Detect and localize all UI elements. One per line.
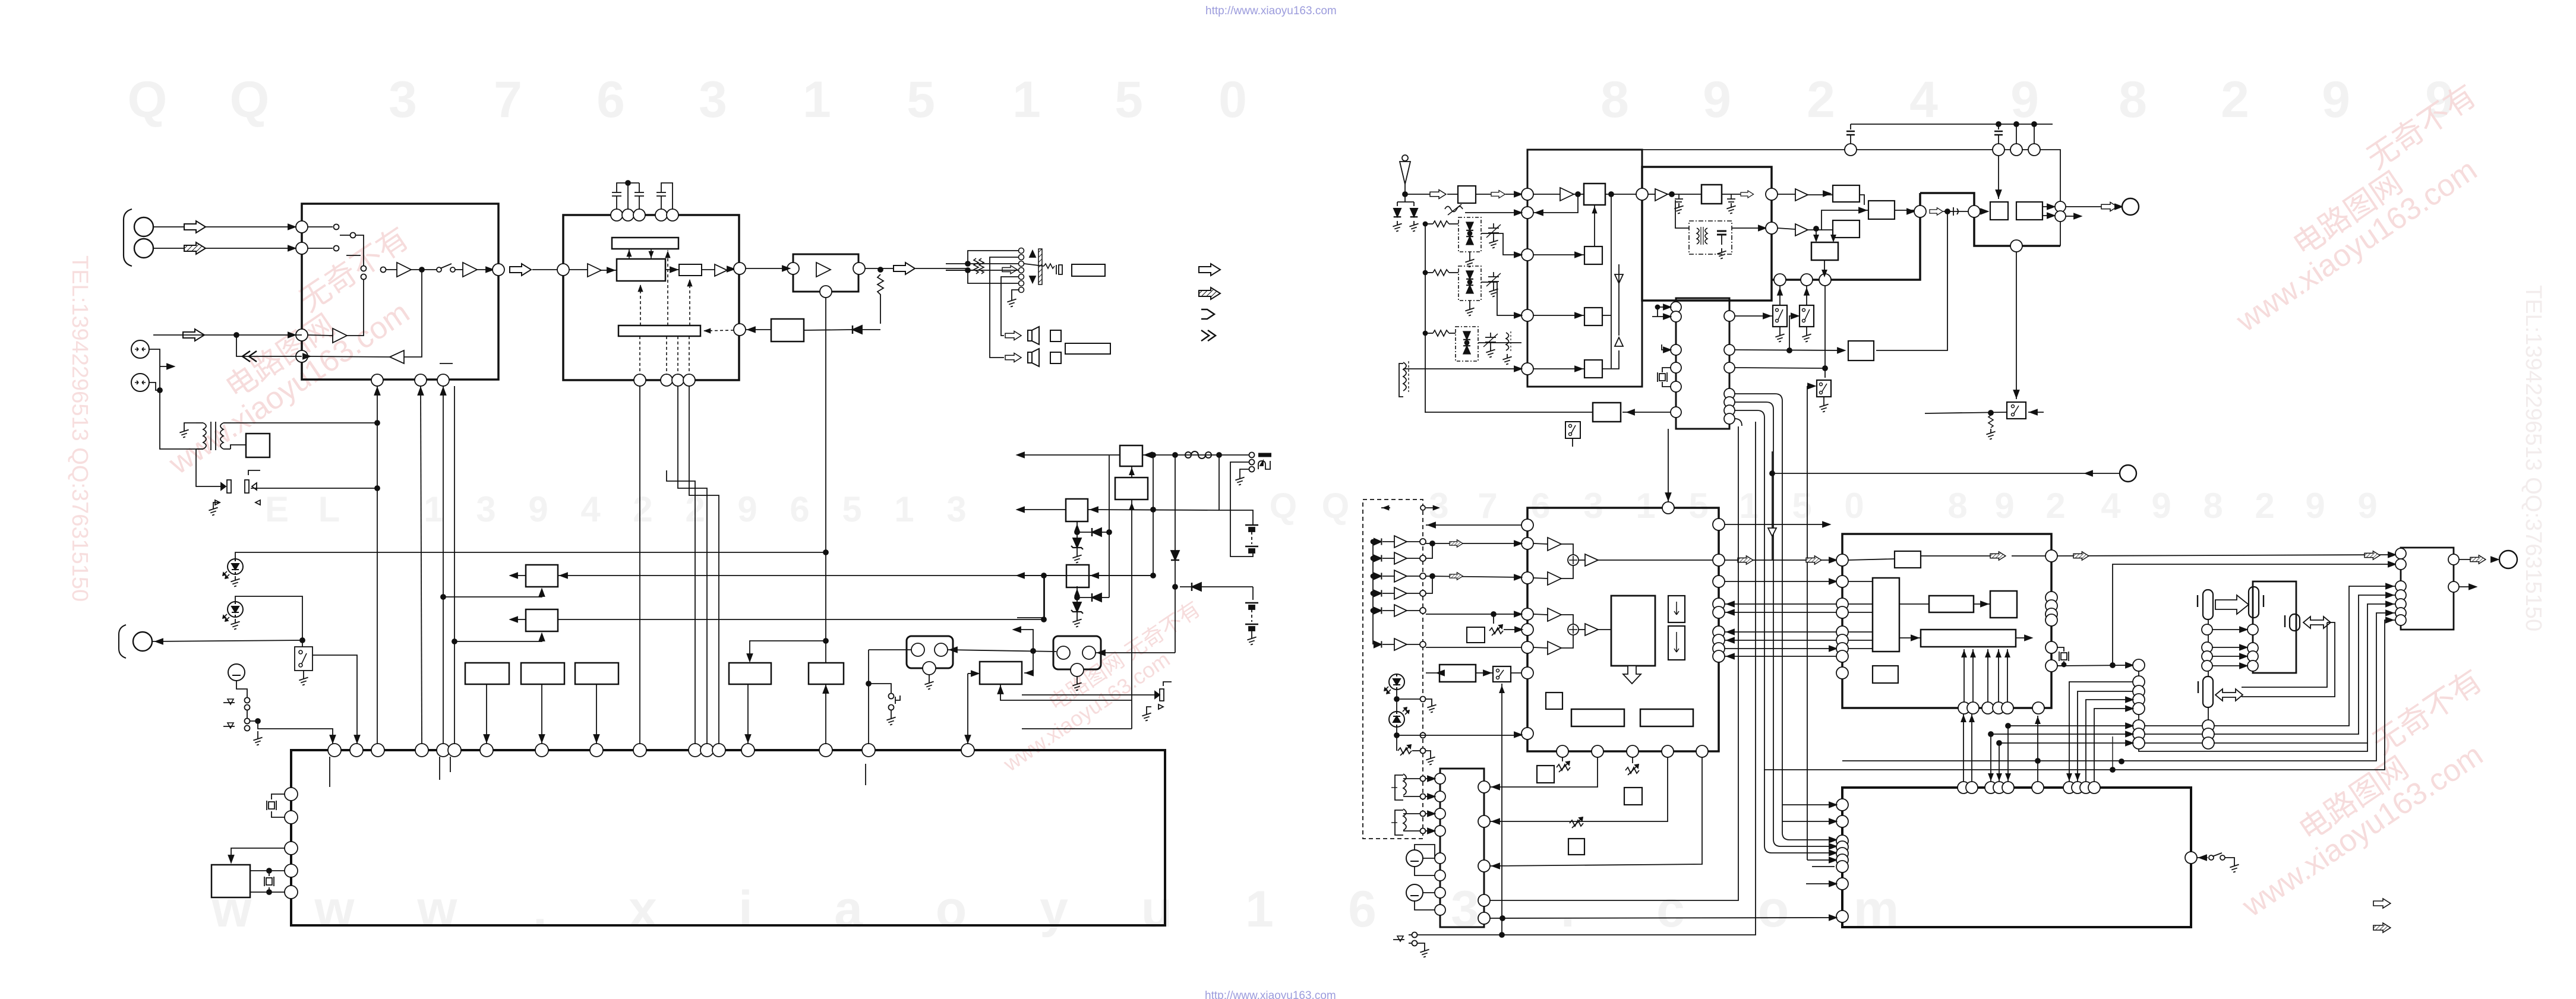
key rows: diodes and amps (1374, 536, 1426, 650)
wire to opto (1022, 694, 1155, 695)
svg-text:0: 0 (1844, 486, 1864, 526)
svg-text:5: 5 (1688, 486, 1708, 526)
box digital receiver (246, 434, 270, 457)
svg-text:4: 4 (580, 489, 601, 529)
speaker L pad (1050, 330, 1061, 342)
svg-text:Q: Q (128, 71, 168, 128)
diode pair below PW3 (1077, 586, 1078, 592)
switch inside (299, 650, 307, 667)
push button glyph (895, 695, 900, 704)
trimmer cap1 (1488, 223, 1499, 238)
wire M1 right (948, 650, 1056, 652)
speaker R (1028, 349, 1039, 366)
wire into rect3 right (1024, 653, 1033, 673)
motor M1 (907, 636, 953, 668)
svg-text:y: y (1040, 881, 1068, 938)
terminal circle out (2122, 198, 2139, 215)
wire (455, 269, 463, 270)
speaker network frame (968, 251, 1018, 264)
svg-text:6: 6 (1530, 486, 1550, 526)
headphone jack bracket (119, 625, 126, 658)
arrowhead (2115, 204, 2122, 210)
block arrow mid (1930, 208, 1943, 215)
head1 wires (1403, 778, 1420, 779)
wire to U201 (532, 269, 557, 270)
stereo pilot vertical (2016, 252, 2017, 399)
wire to tuner (1505, 194, 1521, 195)
switch wire (340, 235, 351, 236)
ground (891, 710, 892, 715)
svg-text:9: 9 (2305, 486, 2325, 526)
pin circle U201 left (557, 264, 569, 276)
wire switch left resistor (1925, 412, 2007, 413)
variable inductor (1445, 207, 1463, 212)
arrow up into R5 (823, 686, 829, 693)
zener below (1071, 602, 1083, 614)
main IC top line (1642, 150, 2060, 246)
wire contacts (247, 710, 248, 718)
battery bar (1258, 453, 1271, 457)
pin if left (1636, 188, 1648, 200)
crystal snd (2059, 652, 2069, 661)
rec out arrow (183, 329, 204, 341)
if tri (1655, 189, 1668, 201)
tri row2 (1795, 224, 1808, 236)
agc box (1848, 341, 1874, 361)
tri (715, 264, 727, 276)
R1 box (526, 565, 558, 587)
battery B2 cell2 (1245, 624, 1258, 631)
svg-text:TEL:13942296513 QQ:376315150: TEL:13942296513 QQ:376315150 (67, 255, 92, 602)
pins syscon left (1671, 302, 1681, 418)
ground opto (1147, 707, 1151, 710)
diode mute (853, 325, 862, 334)
vertical bus 708 (421, 386, 422, 744)
wire (386, 269, 397, 270)
mic MC101 (228, 664, 245, 681)
wire M2 right (1096, 652, 1175, 653)
wire led pair to bus (251, 488, 377, 489)
key row merge links (1430, 541, 1435, 546)
stubs inside U901 (329, 757, 330, 787)
wire stub pin1 (308, 226, 333, 227)
key row5 trimmer (1467, 627, 1485, 643)
servo box rect3 (980, 662, 1022, 684)
R array box2 (521, 663, 564, 684)
diode to battery2 (1192, 583, 1201, 591)
hatched arrow inside snd (1990, 552, 2006, 560)
vertical from 3364 pin (1998, 156, 1999, 199)
pin on outline (2010, 240, 2022, 252)
vertical pin 1629 (967, 674, 968, 744)
junction (300, 638, 305, 643)
LED D102 power (223, 559, 243, 578)
small rect (679, 264, 702, 276)
junction on bus (375, 421, 380, 425)
pin if right2 (1766, 222, 1778, 234)
svg-text:2: 2 (2221, 71, 2249, 128)
diode pair above PW3 (1077, 565, 1078, 590)
pins tape left (1435, 773, 1445, 915)
R1 left arrow out (512, 575, 526, 576)
syscon top pin to thick bus (1702, 285, 1703, 298)
svg-text:5: 5 (907, 71, 935, 128)
wire down from agc pin (1533, 197, 1578, 213)
svg-text:6: 6 (596, 71, 625, 128)
pins U901 left edge (285, 788, 298, 899)
wires between (2144, 725, 2202, 726)
junction (1151, 507, 1156, 512)
contact pair 2 (245, 719, 250, 724)
hooks into box14 (1807, 853, 1825, 860)
legend arrow4 double chevron (1201, 330, 1216, 341)
jack J102 optical1 (131, 340, 149, 358)
pins amp right (2448, 554, 2459, 592)
pin circle (1914, 206, 1926, 217)
block arrow 2 (1476, 194, 1491, 195)
battery B1 cell2 (1245, 546, 1258, 553)
arrowheads into box14 pins (1829, 837, 1836, 843)
head coil 1 (1403, 774, 1406, 795)
wire osc up (1594, 205, 1595, 246)
wire (569, 269, 588, 270)
legend arrow2 hatched (1199, 287, 1220, 299)
junction (375, 486, 380, 491)
transformer T101 (196, 422, 231, 450)
junction (1403, 192, 1407, 197)
variable resistor key (1398, 745, 1412, 755)
svg-text:http://www.xiaoyu163.com: http://www.xiaoyu163.com (1205, 989, 1336, 999)
mic triangle (228, 699, 233, 704)
switch box headphone detect (295, 647, 312, 671)
block arrow out (894, 263, 915, 274)
R array box1 (465, 663, 509, 684)
wire am to pin (1403, 368, 1521, 369)
wire syscon 694 (1622, 412, 1671, 413)
watermark diagonal pink right-top (2195, 78, 2517, 339)
amp out2 (2459, 586, 2476, 587)
svg-text:http://www.xiaoyu163.com: http://www.xiaoyu163.com (1205, 5, 1337, 17)
wire ring (1230, 462, 1249, 524)
AM bar antenna coil (1403, 362, 1406, 391)
wire to pin (541, 684, 542, 744)
cap gnd pair (1675, 194, 1683, 202)
wire (665, 269, 679, 270)
head2 wires (1403, 813, 1420, 814)
resistor vertical (877, 274, 883, 324)
pin mech right + power switch (2185, 852, 2197, 864)
batt legs (1230, 524, 1253, 557)
svg-text:2: 2 (2045, 486, 2065, 526)
svg-text:1: 1 (894, 489, 914, 529)
svg-text:Q: Q (230, 71, 270, 128)
speaker R pad (1050, 352, 1061, 363)
wire down (1252, 587, 1254, 600)
U201 internals: cap rail group1 (612, 181, 673, 209)
wire fb down (236, 335, 302, 356)
junction (157, 388, 162, 393)
big hollow arrow down (1623, 666, 1641, 684)
svg-text:7: 7 (1478, 486, 1497, 526)
wire secondary top (231, 422, 377, 423)
wire switch to bus (312, 655, 357, 744)
stubs mech left (1782, 804, 1836, 805)
label box speakers (1065, 343, 1110, 354)
svg-text:u: u (1141, 881, 1173, 938)
wire varactor to pin 429 (1481, 233, 1521, 255)
vertical to pin 1462 (868, 650, 869, 744)
svg-text:x: x (629, 881, 657, 938)
svg-text:1: 1 (1012, 71, 1041, 128)
varactor group2 (1459, 266, 1481, 301)
jack J103 optical2 (131, 374, 149, 391)
svg-text:Q: Q (1322, 486, 1350, 526)
pins right col (2055, 201, 2066, 212)
junction (965, 261, 970, 266)
svg-text:a: a (834, 881, 863, 938)
IC sound processor box (1842, 534, 2051, 708)
snd internals (1895, 551, 1921, 568)
wire led d102 top long (235, 552, 826, 559)
pin U201 right2 (734, 324, 746, 336)
thick partial outline A (1920, 193, 2060, 246)
watermark diagonal pink mid (984, 596, 1218, 776)
dc jack contact3 (1249, 467, 1255, 472)
arrowhead down (355, 735, 360, 742)
cap gnd pair2 (1727, 194, 1735, 202)
junction at 1943 (1151, 573, 1156, 578)
svg-text:6: 6 (790, 489, 809, 529)
switch bottom vertical (1501, 684, 1502, 935)
tri to det (1795, 189, 1808, 201)
wires serial col to mech pins (2069, 682, 2133, 782)
arrow into agc (1735, 350, 1845, 350)
pins U101 bottom (371, 374, 449, 386)
terminal circle lineout (2120, 465, 2136, 482)
svg-text:3: 3 (946, 489, 966, 529)
rect row3 (1584, 308, 1602, 325)
fb wire2 (308, 356, 390, 357)
pins on top line (1845, 144, 2040, 156)
mixer box (1584, 184, 1605, 205)
junction (234, 333, 239, 337)
ground B2 (1251, 631, 1252, 634)
wire to pin (486, 684, 487, 744)
pins mech top (1958, 782, 2100, 793)
regulator box PW2 (1115, 478, 1148, 499)
serial circles left col (2139, 665, 2367, 751)
dashed links (640, 250, 734, 374)
tune detect box (1593, 403, 1621, 422)
pins keydisp left (1521, 519, 1533, 739)
cap stub 3364 (1998, 124, 1999, 129)
wire varactor2 to pin 531 (1481, 282, 1521, 315)
post amps (1585, 554, 1598, 566)
jack J101 L input (134, 217, 153, 236)
arrowhead to jack (156, 639, 163, 644)
diode feed (1171, 551, 1179, 560)
wire to speaker net (916, 268, 968, 269)
wire dc rail2 (1017, 509, 1066, 510)
junction (1394, 697, 1399, 701)
remote LED D-R1 (1384, 674, 1404, 694)
junction (1669, 192, 1674, 197)
arrow L in (184, 221, 206, 233)
wires keys to IC (1426, 543, 1521, 544)
svg-text:1: 1 (1245, 881, 1274, 938)
pins snd left (1836, 554, 1848, 679)
disc coils (1697, 228, 1699, 244)
svg-text:9: 9 (2010, 71, 2039, 128)
contact (334, 246, 339, 251)
mute box (771, 319, 804, 342)
if ceramic filter box (1701, 185, 1722, 204)
rect row4 (1584, 360, 1602, 378)
power box R5 on vertical (809, 663, 844, 684)
svg-text:w: w (314, 881, 355, 938)
wires vol (1476, 672, 1493, 674)
jack J104 headphone (133, 632, 152, 651)
switch box sw1 (1773, 305, 1787, 327)
wire via 3556 (2057, 665, 2133, 666)
arrow R in hatched (184, 242, 206, 254)
regulator box PW3 (1066, 565, 1089, 587)
headphone amp box (793, 254, 858, 292)
mic tape 1 (1406, 850, 1423, 867)
IC U201 DSP box (563, 215, 739, 380)
svg-text:5: 5 (842, 489, 861, 529)
junctions on rail (1996, 122, 2001, 127)
vertical 1905 (1131, 466, 1132, 478)
tuning line vertical (1425, 224, 1426, 413)
plug tip (1056, 265, 1062, 274)
vertical amp supply 1390 (825, 295, 826, 663)
switch vol (1493, 666, 1511, 682)
block arrow (2101, 203, 2117, 211)
pill connectors (2203, 590, 2213, 619)
zener above (1071, 538, 1083, 549)
vertical supply 1978 (1175, 455, 1176, 653)
svg-text:m: m (1854, 881, 1899, 938)
label rects (1571, 709, 1624, 726)
stub wires syscon left (1658, 306, 1671, 308)
svg-text:7: 7 (494, 71, 522, 128)
pins snd right (2045, 550, 2057, 672)
junction (419, 267, 424, 272)
arrowhead left (1017, 453, 1024, 458)
svg-text:1: 1 (1636, 486, 1655, 526)
remote LED D-R2 (1389, 707, 1409, 727)
jack resistor (1044, 264, 1055, 268)
wire mic down (236, 681, 247, 697)
wire tri (308, 335, 333, 336)
wire tri out (347, 279, 364, 336)
coupling cap (1953, 207, 1958, 216)
svg-text:i: i (738, 881, 753, 938)
vertical 765 (454, 386, 455, 744)
wire agc (1465, 212, 1521, 213)
system control IC narrow box (1676, 298, 1729, 429)
bottom contacts (1412, 932, 1418, 938)
pin circles U101 left (296, 221, 308, 362)
trimmer cap3 (1485, 333, 1496, 347)
tri buffer u201 (588, 264, 601, 277)
svg-text:9: 9 (528, 489, 548, 529)
svg-text:8: 8 (2203, 486, 2223, 526)
pins snd bottom (1958, 702, 2044, 714)
junction 746 R1 (441, 595, 446, 599)
watermark row1 gray digits (128, 71, 2454, 128)
vol box (1439, 665, 1476, 682)
arrows bar-dsp (627, 249, 653, 259)
switch S-t (1565, 422, 1580, 438)
svg-text:5: 5 (1792, 486, 1811, 526)
speaker R block arrow (1005, 353, 1021, 362)
jack arrows (1030, 251, 1036, 257)
watermark diagonal pink right-bottom (2201, 663, 2523, 924)
U201 SRAM bar (612, 238, 678, 249)
svg-text:0: 0 (1218, 71, 1247, 128)
branch arrow (160, 366, 171, 367)
svg-text:4: 4 (1909, 71, 1938, 128)
head coil 2 (1403, 809, 1406, 830)
tuner internals: buffer tri (1560, 188, 1574, 201)
svg-text:5: 5 (1115, 71, 1143, 128)
R array box3 (575, 663, 618, 684)
ground d101 (213, 502, 220, 505)
mic triangle2 (228, 723, 233, 728)
svg-text:8: 8 (1947, 486, 1967, 526)
amp out arrow (2459, 559, 2470, 560)
pins U201 top (611, 209, 678, 221)
svg-text:L: L (318, 489, 340, 529)
switch contacts mid (361, 266, 367, 271)
junctions (1151, 453, 1156, 457)
switch box sw2 (1800, 305, 1814, 327)
svg-text:o: o (936, 881, 967, 938)
bundle amp to serial (2214, 586, 2395, 726)
wire disc out (1732, 227, 1766, 229)
svg-text:9: 9 (2151, 486, 2171, 526)
svg-text:o: o (1758, 881, 1789, 938)
summing nodes (1568, 555, 1579, 565)
ant filter box (1458, 186, 1476, 203)
small rect eeprom (1546, 693, 1562, 709)
ground mic (257, 731, 258, 735)
trimmers below (1557, 761, 1570, 772)
wire secondary bottom (231, 445, 246, 449)
arrowhead up (375, 388, 380, 395)
svg-text:8: 8 (2119, 71, 2147, 128)
svg-text:.: . (533, 881, 547, 938)
pins tuner left (1521, 188, 1533, 375)
switch blade (440, 264, 452, 268)
hollow tri up (1615, 337, 1623, 346)
curved wires syscon to verticals (1735, 394, 1835, 840)
vertical feed 1941 (1153, 456, 1154, 576)
thick ctrl bus (1772, 193, 1920, 280)
power section: wire dc rail (1017, 454, 1255, 456)
watermark row2 gray digits (265, 486, 2378, 529)
arrowhead up (418, 388, 424, 395)
vertical bus 635 (377, 386, 378, 744)
wire into top pin (1668, 429, 1669, 502)
SECTION: left half (119, 181, 1271, 925)
wire to R2 bottom (454, 634, 542, 641)
wire disc in (1675, 200, 1689, 228)
svg-text:3: 3 (699, 71, 727, 128)
resistor r-t3 (1433, 330, 1449, 336)
